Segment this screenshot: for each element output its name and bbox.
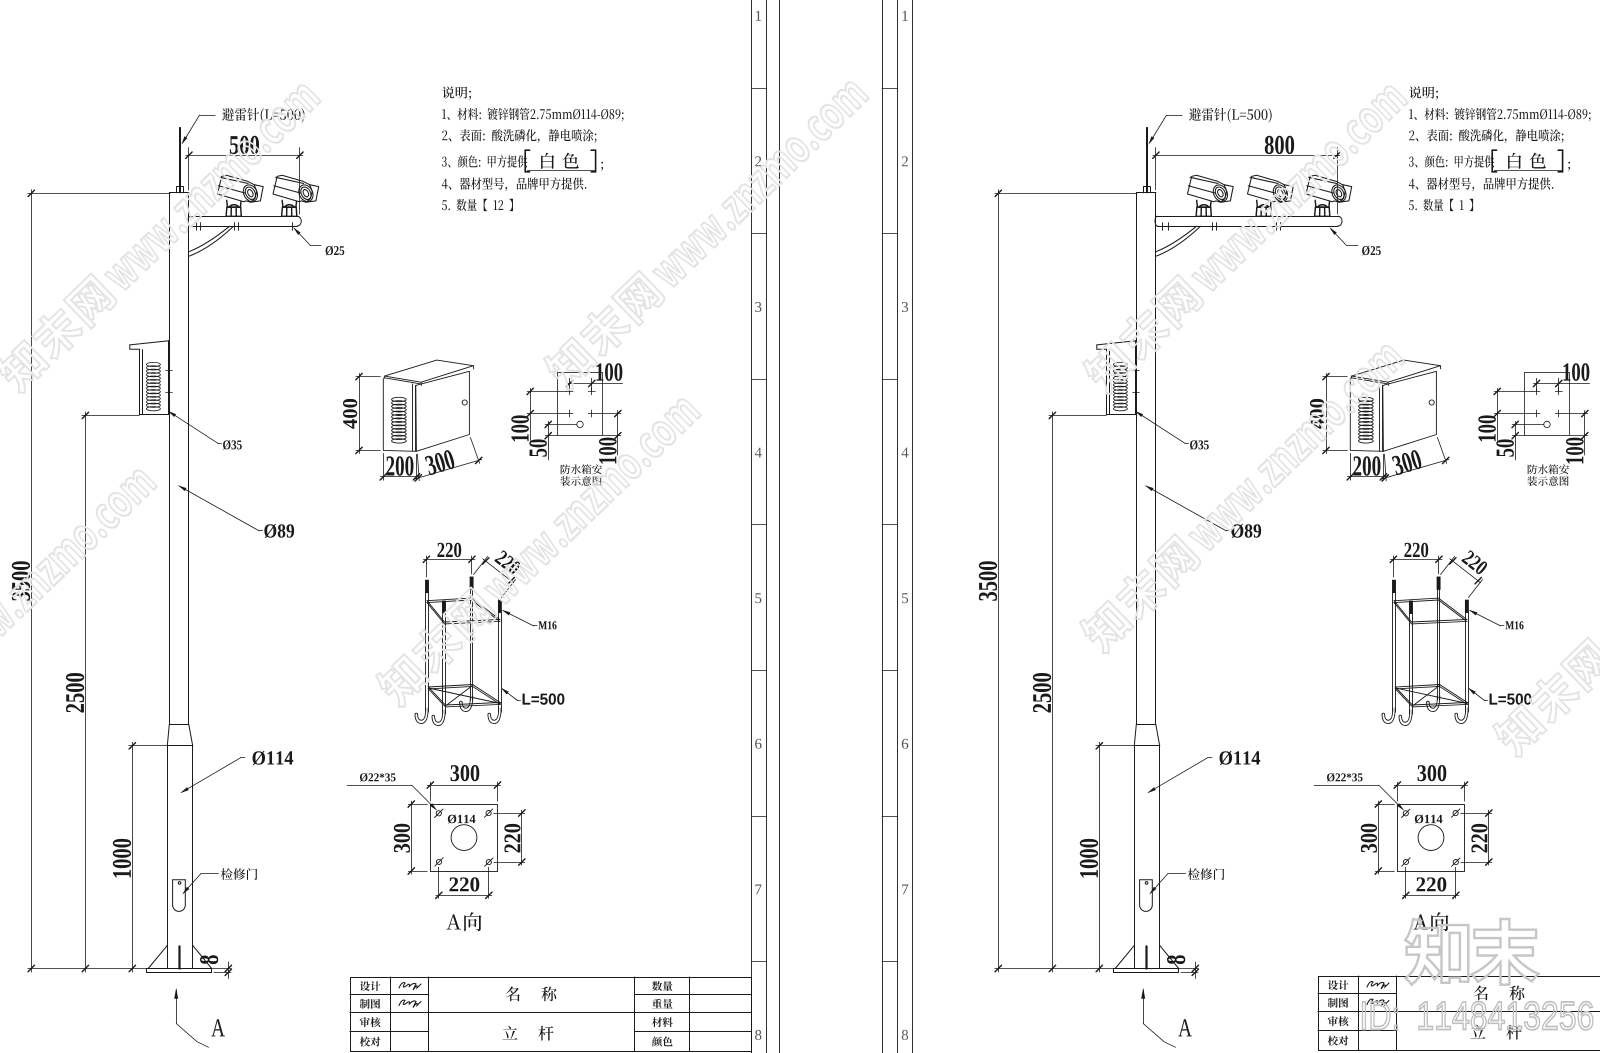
caption 防水箱安 — [561, 464, 602, 474]
cage cross brace — [1395, 688, 1467, 704]
box dim text 400 — [343, 399, 357, 429]
titleblock 校对 — [360, 1037, 381, 1047]
box front face — [1350, 379, 1383, 451]
titleblock 设计 — [360, 981, 381, 991]
cage dim 220 top — [1404, 543, 1428, 558]
cage label M16 — [538, 621, 556, 629]
base plate (side view) — [1114, 969, 1179, 973]
crossarm mount ticks — [1162, 223, 1164, 231]
box dimension 200 — [380, 453, 420, 480]
box vents — [1359, 397, 1374, 401]
watermark band 3 — [0, 459, 160, 781]
titleblock 校对 — [1328, 1036, 1349, 1046]
dim 100 top — [569, 378, 571, 391]
camera 2 — [1248, 175, 1294, 216]
titleblock 审核 — [360, 1017, 381, 1027]
dim 800 line — [1153, 155, 1340, 157]
label Ø22*35 leader — [1314, 785, 1379, 787]
section arrow A — [176, 990, 178, 1024]
dim 500 line — [186, 155, 303, 157]
dim 2500 — [1052, 412, 1054, 972]
cage label L=500 leader — [1468, 688, 1488, 701]
anchor bolt 3 shank — [442, 614, 444, 715]
anchor bolt 4 hook — [488, 708, 501, 724]
camera 1 — [218, 175, 264, 216]
box dimension 400 — [356, 373, 381, 453]
aview label Ø114 — [1415, 815, 1443, 824]
cage dim 220 top — [437, 543, 461, 558]
label 检修门 leader — [1151, 873, 1169, 893]
pole lower section Ø114 — [167, 746, 169, 969]
anchor bolt 3 hook — [432, 710, 445, 726]
anchor bolt 2 hook — [460, 696, 473, 712]
gusset right — [193, 945, 212, 968]
label 检修门 leader — [184, 873, 202, 893]
dim 500 extension lines — [188, 148, 190, 191]
label 避雷针 leader — [1166, 115, 1182, 117]
dim 220 bottom — [438, 867, 440, 898]
waterproof box 3D (R) — [1350, 360, 1440, 451]
title block (left sheet) — [350, 977, 752, 1052]
cable gland circle — [1544, 421, 1550, 427]
box band clamps — [1133, 370, 1140, 372]
box dim text 400 — [1310, 399, 1324, 429]
middle hole marks — [1533, 413, 1540, 415]
dim 100 left chain — [530, 388, 532, 440]
top hole marks — [1533, 391, 1540, 393]
zone number 7 — [756, 885, 762, 895]
box dimension 300 (slanted) — [1382, 438, 1449, 482]
aview label Ø22*35 — [1327, 773, 1363, 782]
box front face — [383, 379, 416, 451]
titleblock 颜色 — [652, 1037, 673, 1047]
hole-pattern plate outline — [1525, 373, 1570, 436]
holes dim 100 left — [1478, 415, 1496, 441]
anchor bolt 4 thread — [1465, 600, 1468, 612]
center anchor line — [178, 946, 180, 968]
hole-pattern plate outline — [558, 373, 603, 436]
label 检修门 — [1188, 868, 1225, 880]
anchor bolt 3 thread — [443, 601, 446, 613]
camera 1 — [1188, 175, 1234, 216]
mounting hole pattern (R) — [1494, 373, 1590, 461]
notes line4 — [1409, 177, 1554, 191]
base plate outline — [431, 805, 498, 872]
cage dimension 220 (slanted) — [474, 557, 516, 598]
zone number 6 — [902, 739, 909, 749]
dim 3500 — [31, 190, 33, 972]
titleblock 重量 — [652, 999, 673, 1009]
notes line1 — [1409, 108, 1590, 122]
base plate A-view (L) — [431, 805, 498, 872]
aview dim 300 left — [1361, 824, 1377, 853]
dim 220 bottom — [1405, 867, 1407, 898]
anchor bolt 1 shank — [425, 593, 427, 712]
shared bottom extension — [995, 968, 1113, 970]
aview label Ø114 — [448, 815, 476, 824]
dim text 500 — [230, 136, 259, 154]
dim 220 right — [494, 813, 525, 815]
cage lower ring — [1395, 685, 1467, 706]
holes dim 100 top — [597, 363, 623, 381]
zone number 5 — [902, 593, 908, 603]
notes line3 — [442, 155, 527, 167]
label Ø89 — [264, 524, 294, 538]
zone number 4 — [902, 448, 909, 458]
crossarm mount ticks — [196, 223, 198, 231]
notes 说明; — [1409, 86, 1438, 100]
anchor bolt 1 hook — [1382, 708, 1395, 724]
notes ; — [1568, 162, 1570, 171]
box vents — [392, 397, 407, 401]
notes line5 — [442, 199, 513, 211]
titleblock signature 制图 — [399, 1000, 421, 1007]
pole circle Ø114 — [451, 825, 477, 851]
box dim text 200 — [1353, 456, 1380, 476]
anchor bolt 2 thread — [1437, 577, 1440, 589]
notes line3 — [1409, 155, 1494, 167]
holes dim 100 left — [511, 415, 529, 441]
anchor bolt 4 thread — [498, 600, 501, 612]
titleblock 设计 — [1328, 980, 1349, 990]
label Ø25 — [1362, 246, 1381, 256]
titleblock 制图 — [1328, 998, 1348, 1008]
anchor bolt cage (R) — [1382, 577, 1469, 726]
label Ø35 leader — [169, 412, 218, 444]
pole upper section Ø89 — [1136, 192, 1156, 194]
cage label L=500 — [1490, 693, 1532, 704]
plate thickness dim 8 — [212, 968, 231, 970]
label Ø35 — [223, 440, 242, 450]
aview dim 300 top — [1418, 765, 1447, 781]
label 检修门 — [221, 868, 258, 880]
center anchor line — [1145, 946, 1147, 968]
aview title A向 — [446, 912, 481, 931]
titleblock 名称 — [506, 987, 557, 1002]
titleblock 名称 — [1474, 986, 1525, 1001]
notes 白色 underline — [527, 170, 595, 172]
titleblock 材料 — [652, 1017, 673, 1027]
watermark ID number — [1362, 1002, 1592, 1030]
aview dim 220 right — [1471, 824, 1487, 853]
titleblock 立杆 — [1471, 1025, 1522, 1040]
dim 100 right chain — [1584, 411, 1586, 455]
bolt holes — [436, 811, 441, 816]
zone number 3 — [902, 302, 908, 312]
box door knob — [1429, 400, 1434, 405]
titleblock 数量 — [652, 981, 673, 991]
cage dim 220 slant — [494, 550, 522, 576]
zone number 6 — [755, 739, 762, 749]
holes dim 100 right — [599, 438, 617, 464]
shared bottom extension — [28, 968, 146, 970]
box door knob — [462, 400, 467, 405]
camera 3 — [1306, 175, 1352, 216]
anchor bolt 2 shank — [470, 589, 472, 700]
pole taper joint — [169, 724, 189, 726]
caption 装示意图 — [560, 476, 601, 486]
watermark band 6 — [1076, 334, 1407, 656]
label Ø25 — [326, 246, 345, 256]
box lid — [385, 360, 474, 382]
crossarm support brace — [1156, 226, 1201, 256]
dim 2500 — [85, 412, 87, 972]
cage top hoop — [427, 598, 500, 622]
label 避雷针(L=500) — [1189, 108, 1272, 123]
section letter A — [1178, 1019, 1192, 1036]
anchor bolt 1 thread — [426, 580, 429, 592]
pole circle Ø114 — [1418, 825, 1444, 851]
notes 白色 underline — [1494, 170, 1562, 172]
zone number 4 — [755, 448, 762, 458]
zone number 8 — [902, 1030, 908, 1040]
notes line2 — [442, 129, 596, 143]
zone number 3 — [755, 302, 761, 312]
titleblock 审核 — [1328, 1016, 1349, 1026]
anchor bolt 3 hook — [1399, 710, 1412, 726]
holes dim 50 — [529, 439, 547, 456]
plate thickness 8 — [1167, 955, 1185, 964]
equipment box (side view on pole) — [1097, 341, 1136, 345]
access door — [1140, 880, 1153, 912]
caption 防水箱安 — [1528, 464, 1569, 474]
plate thickness 8 — [200, 955, 218, 964]
label Ø114 — [1220, 751, 1261, 765]
dim 300 top — [430, 782, 432, 801]
anchor bolt 2 shank — [1437, 589, 1439, 700]
dim 800 extension lines — [1155, 148, 1157, 191]
box door face — [1383, 371, 1437, 451]
watermark band 5 — [1079, 75, 1410, 397]
right sheet — [979, 86, 1591, 1047]
aview title A向 — [1413, 912, 1448, 931]
notes 说明; — [442, 86, 471, 100]
dim 1000 — [1099, 742, 1101, 972]
label Ø22*35 leader — [347, 785, 412, 787]
label Ø114 leader — [182, 758, 241, 793]
camera crossarm — [190, 216, 297, 218]
zone strip (right sheet) — [882, 0, 913, 1053]
section letter A — [211, 1019, 225, 1036]
cable gland circle — [577, 421, 583, 427]
left sheet — [12, 0, 780, 1053]
cage dimension 220 (top) — [423, 556, 475, 577]
cage label L=500 — [523, 693, 565, 704]
pole lower section Ø114 — [1134, 746, 1136, 969]
pole taper joint — [1136, 724, 1156, 726]
dim 100 top — [1536, 378, 1538, 391]
watermark band 1 — [0, 74, 324, 396]
box lid — [1352, 360, 1441, 382]
label Ø114 leader — [1149, 758, 1208, 793]
aview dim 220 bottom — [1417, 877, 1447, 891]
notes line1 — [442, 108, 623, 122]
top hole marks — [566, 391, 573, 393]
dim 50 left chain — [548, 421, 550, 460]
holes dim 100 right — [1566, 438, 1584, 464]
watermark logo 知末 — [1405, 919, 1538, 985]
lightning rod — [1146, 128, 1148, 193]
aview label Ø22*35 — [360, 773, 396, 782]
notes line4 — [442, 177, 587, 191]
anchor bolt 4 shank — [1465, 613, 1467, 713]
notes line5 — [1409, 199, 1473, 211]
cage label L=500 leader — [501, 688, 521, 701]
box dimension 400 — [1323, 373, 1348, 453]
anchor bolt 2 hook — [1427, 696, 1440, 712]
dim text 800 — [1265, 136, 1294, 154]
anchor bolt 4 shank — [498, 613, 500, 713]
equipment box (side view on pole) — [130, 341, 169, 345]
plate thickness dim 8 — [1179, 968, 1198, 970]
notes bracket [ — [525, 150, 529, 172]
box dim text 200 — [386, 456, 413, 476]
dim 300 left — [1375, 804, 1394, 806]
notes bracket [ — [1492, 150, 1496, 172]
box dimension 300 (slanted) — [415, 438, 482, 482]
anchor bolt 4 hook — [1455, 708, 1468, 724]
notes bracket ] — [591, 150, 595, 172]
gusset left — [148, 945, 167, 968]
dim 300 left — [408, 804, 427, 806]
cage cross brace — [428, 688, 500, 704]
holes dim 100 top — [1564, 363, 1590, 381]
cage lower ring — [428, 685, 500, 706]
gusset left — [1115, 945, 1134, 968]
zone strip (left sheet) — [752, 0, 780, 1053]
pole elevation (R) — [1097, 128, 1179, 973]
gusset right — [1160, 945, 1179, 968]
caption 装示意图 — [1527, 476, 1568, 486]
cage label M16 leader — [1469, 610, 1504, 626]
label 避雷针(L=500) — [222, 108, 305, 123]
notes line2 — [1409, 129, 1563, 143]
anchor bolt 3 thread — [1410, 601, 1413, 613]
aview dim 300 top — [451, 765, 480, 781]
base plate A-view (R) — [1398, 805, 1465, 872]
zone number 1 — [756, 11, 761, 21]
label 避雷针 leader — [199, 115, 215, 117]
dim 50 left chain — [1515, 421, 1517, 460]
box dim text 300 — [424, 449, 456, 476]
titleblock 制图 — [360, 999, 380, 1009]
anchor bolt 2 thread — [470, 577, 473, 589]
dim text 3500 — [12, 561, 30, 601]
label Ø114 — [253, 751, 294, 765]
box dim text 300 — [1391, 449, 1423, 476]
cage dimension 220 (slanted) — [1441, 557, 1483, 598]
bolt holes — [1403, 811, 1408, 816]
titleblock signature 制图 — [1367, 999, 1389, 1006]
aview dim 220 bottom — [450, 877, 480, 891]
crossarm support brace — [189, 226, 234, 256]
zone number 7 — [902, 885, 908, 895]
lightning rod — [179, 128, 181, 193]
cage dimension 220 (top) — [1390, 556, 1442, 577]
dim text 2500 — [1033, 673, 1051, 712]
box vents (side) — [1113, 362, 1127, 366]
zone number 1 — [903, 11, 908, 21]
holes dim 50 — [1496, 439, 1514, 456]
box hinge edge — [412, 384, 414, 451]
dim 1000 — [132, 742, 134, 972]
section arrow A — [1143, 990, 1145, 1024]
camera 2 — [273, 175, 319, 216]
label Ø89 leader — [1146, 486, 1226, 531]
watermark band 2 — [540, 71, 871, 393]
dim 300 top — [1397, 782, 1399, 801]
label Ø25 leader — [1331, 229, 1347, 246]
aview dim 220 right — [504, 824, 520, 853]
base plate (side view) — [147, 969, 212, 973]
anchor bolt 1 shank — [1392, 593, 1394, 712]
label Ø35 — [1190, 440, 1209, 450]
anchor bolt 1 hook — [415, 708, 428, 724]
pole upper section Ø89 — [169, 192, 189, 194]
titleblock signature 设计 — [1367, 982, 1389, 989]
dim 100 right chain — [617, 411, 619, 455]
anchor bolt 1 thread — [1393, 580, 1396, 592]
label Ø89 — [1231, 524, 1261, 538]
label Ø25 leader — [294, 229, 310, 246]
titleblock signature 设计 — [399, 983, 421, 990]
dim text 1000 — [113, 839, 131, 878]
notes ; — [601, 162, 603, 171]
zone number 2 — [755, 156, 761, 166]
titleblock 立杆 — [503, 1026, 554, 1041]
zone number 8 — [755, 1030, 761, 1040]
pole elevation (L) — [130, 128, 212, 973]
dim text 1000 — [1080, 839, 1098, 878]
anchor bolt 3 shank — [1409, 614, 1411, 715]
cage label M16 — [1505, 621, 1523, 629]
dim 100 left chain — [1497, 388, 1499, 440]
box vents (side) — [146, 362, 160, 366]
zone number 2 — [902, 156, 908, 166]
box band clamps — [166, 370, 173, 372]
label Ø89 leader — [179, 486, 259, 531]
camera crossarm — [1157, 216, 1338, 218]
mounting hole pattern (L) — [527, 373, 623, 461]
base plate outline — [1398, 805, 1465, 872]
cage label M16 leader — [502, 610, 537, 626]
dim text 2500 — [66, 673, 84, 712]
watermark band 7 — [1489, 438, 1600, 760]
box door face — [416, 371, 470, 451]
dim text 3500 — [979, 561, 997, 601]
title block (right sheet) — [1318, 976, 1600, 1051]
notes bracket ] — [1558, 150, 1562, 172]
dim 220 right — [1461, 813, 1492, 815]
box dimension 200 — [1347, 453, 1387, 480]
middle hole marks — [566, 413, 573, 415]
anchor bolt cage (L) — [415, 577, 502, 726]
watermark band 4 — [372, 388, 703, 710]
zone number 5 — [755, 593, 761, 603]
dim 3500 — [998, 190, 1000, 972]
notes 白色 — [1508, 153, 1546, 169]
label Ø35 leader — [1136, 412, 1185, 444]
waterproof box 3D (L) — [383, 360, 473, 451]
access door — [173, 880, 186, 912]
cage dim 220 slant — [1461, 550, 1489, 576]
notes 白色 — [541, 153, 579, 169]
cage top hoop — [1394, 598, 1467, 622]
aview dim 300 left — [394, 824, 410, 853]
box hinge edge — [1379, 384, 1381, 451]
